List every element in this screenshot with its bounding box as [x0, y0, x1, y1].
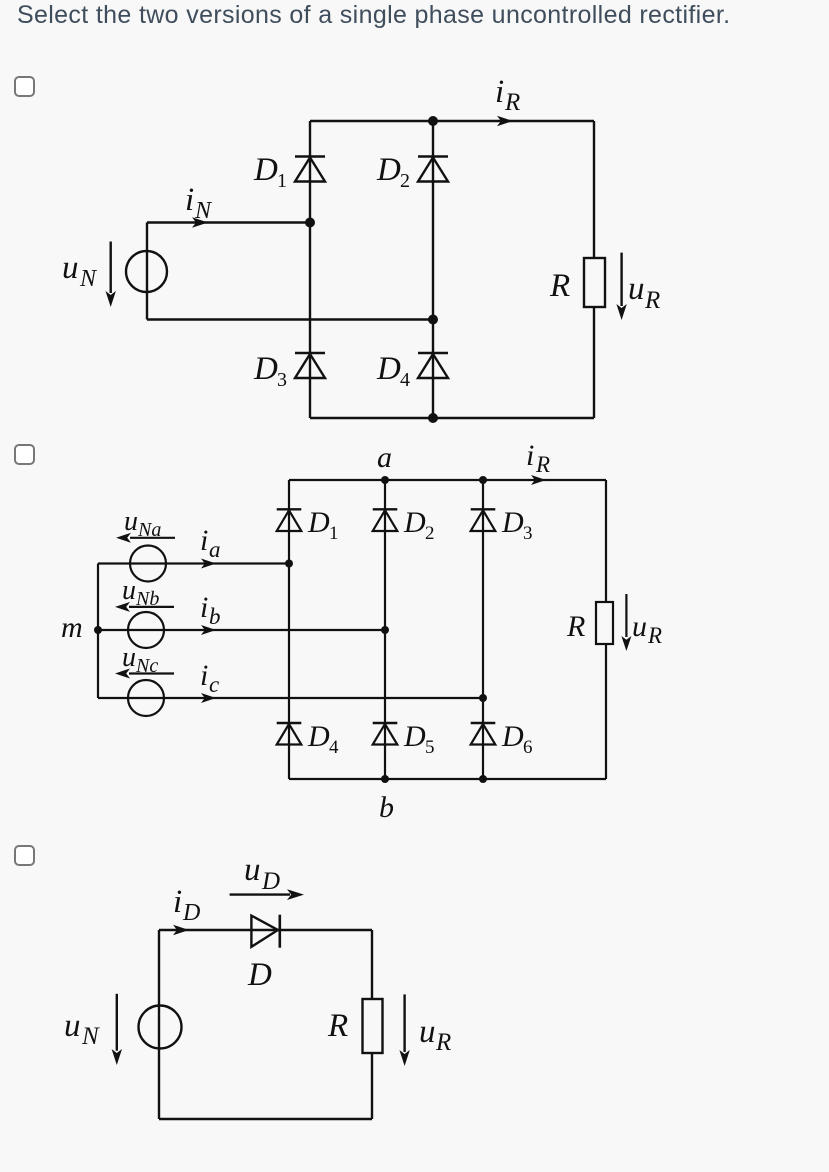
svg-text:D: D — [376, 152, 401, 188]
node phase c / D3 — [479, 694, 487, 702]
svg-text:D: D — [501, 720, 524, 753]
label uN — [62, 250, 98, 292]
svg-text:R: R — [647, 623, 662, 648]
svg-text:4: 4 — [400, 369, 410, 391]
wire phase b — [98, 629, 385, 631]
checkbox option 1 — [14, 76, 35, 97]
svg-text:D: D — [253, 351, 278, 387]
node phase b / D2 — [381, 626, 389, 634]
svg-text:Nb: Nb — [135, 588, 159, 610]
label D3 — [253, 351, 287, 391]
svg-text:N: N — [79, 266, 98, 292]
label D1 — [253, 152, 287, 192]
label uD — [244, 852, 280, 895]
svg-text:6: 6 — [523, 737, 533, 758]
label iR — [526, 439, 550, 477]
svg-text:i: i — [200, 659, 208, 692]
svg-text:D: D — [403, 506, 426, 539]
current arrow iN — [192, 217, 208, 227]
svg-text:u: u — [64, 1008, 81, 1044]
label uNa — [124, 506, 161, 541]
svg-text:Na: Na — [137, 519, 161, 541]
wire source left — [146, 223, 148, 320]
voltage arrow uNa — [116, 533, 175, 543]
label iD — [173, 884, 200, 926]
svg-text:a: a — [209, 537, 221, 562]
label uR — [419, 1014, 451, 1056]
label uR — [628, 271, 660, 314]
svg-text:N: N — [194, 198, 213, 224]
current arrow ic — [201, 693, 216, 703]
label D5 — [403, 720, 435, 758]
label D6 — [501, 720, 533, 758]
label R — [327, 1008, 348, 1044]
wire right — [605, 480, 607, 779]
diode D5 — [373, 630, 398, 779]
label iR — [495, 74, 520, 116]
label D4 — [376, 351, 410, 391]
svg-text:R: R — [535, 452, 550, 477]
node AC right — [428, 315, 438, 325]
node bottom D6 — [479, 775, 487, 783]
svg-text:u: u — [62, 250, 79, 286]
wire source bottom — [147, 318, 433, 320]
label D4 — [307, 720, 339, 758]
svg-text:u: u — [628, 271, 645, 307]
wire bottom rail — [289, 778, 606, 780]
svg-text:R: R — [435, 1029, 451, 1056]
svg-text:u: u — [632, 610, 647, 643]
svg-text:i: i — [200, 591, 208, 624]
label uN — [64, 1008, 100, 1050]
wire phase c — [98, 697, 483, 699]
svg-text:a: a — [377, 441, 392, 474]
AC source uNb — [128, 612, 164, 648]
resistor R — [584, 258, 605, 307]
label a — [377, 441, 392, 474]
svg-text:D: D — [247, 957, 272, 993]
svg-text:R: R — [644, 287, 660, 314]
diode D2 — [373, 480, 398, 630]
wire neutral bus — [97, 564, 99, 699]
svg-text:i: i — [185, 182, 194, 218]
node top rail — [428, 116, 438, 126]
svg-text:1: 1 — [277, 170, 287, 192]
voltage arrow uNb — [115, 602, 174, 612]
label iN — [185, 182, 213, 224]
svg-text:D: D — [307, 720, 330, 753]
node top D3 — [479, 476, 487, 484]
voltage arrow uR — [399, 994, 409, 1066]
node a — [381, 476, 389, 484]
voltage arrow uR — [616, 253, 626, 320]
svg-text:Nc: Nc — [135, 655, 158, 677]
wire top — [159, 929, 372, 931]
diode D6 — [471, 698, 496, 779]
AC source uN — [126, 251, 167, 292]
current arrow iR — [531, 475, 546, 485]
wire bottom — [159, 1118, 372, 1120]
AC source uN — [139, 1006, 182, 1049]
diode D1 — [277, 480, 302, 564]
svg-text:D: D — [182, 900, 200, 926]
svg-text:1: 1 — [329, 523, 339, 544]
node bottom rail — [428, 413, 438, 423]
label m — [61, 611, 83, 644]
node m — [94, 626, 102, 634]
svg-text:b: b — [379, 791, 394, 824]
svg-text:R: R — [504, 89, 520, 116]
diode D3 — [295, 223, 325, 419]
wire left — [158, 930, 160, 1119]
label D1 — [307, 506, 339, 544]
current arrow ia — [201, 559, 216, 569]
svg-text:u: u — [419, 1014, 436, 1050]
label ia — [200, 524, 221, 562]
label uNb — [122, 575, 159, 610]
svg-text:u: u — [244, 852, 261, 888]
node phase a / D1 — [285, 560, 293, 568]
svg-text:D: D — [261, 868, 280, 895]
AC source uNa — [130, 546, 166, 582]
svg-text:2: 2 — [400, 170, 410, 192]
current arrow iD — [173, 925, 189, 935]
current arrow iR — [497, 116, 513, 126]
svg-text:4: 4 — [329, 737, 339, 758]
svg-text:i: i — [200, 524, 208, 557]
svg-text:m: m — [61, 611, 83, 644]
svg-text:N: N — [81, 1023, 100, 1050]
label uNc — [122, 642, 158, 677]
svg-text:3: 3 — [523, 523, 533, 544]
svg-text:i: i — [173, 884, 182, 920]
svg-text:D: D — [253, 152, 278, 188]
voltage arrow uD — [230, 889, 304, 900]
svg-text:u: u — [122, 575, 136, 606]
svg-text:3: 3 — [277, 369, 287, 391]
svg-text:R: R — [566, 610, 585, 643]
label D2 — [376, 152, 410, 192]
svg-text:u: u — [122, 642, 136, 673]
label R — [566, 610, 585, 643]
voltage arrow uN — [112, 994, 122, 1065]
svg-text:i: i — [526, 439, 534, 472]
resistor R — [596, 602, 613, 644]
diode D4 — [418, 320, 448, 419]
current arrow ib — [201, 625, 216, 635]
resistor R — [363, 999, 383, 1053]
label ic — [200, 659, 219, 697]
label D3 — [501, 506, 533, 544]
node b — [381, 775, 389, 783]
label ib — [200, 591, 221, 629]
diode D4 — [277, 564, 302, 780]
wire phase a — [98, 562, 289, 564]
svg-text:5: 5 — [425, 737, 435, 758]
node AC left — [305, 218, 315, 228]
svg-text:D: D — [376, 351, 401, 387]
svg-text:b: b — [209, 604, 221, 629]
wire bottom — [310, 417, 594, 419]
wire source top — [147, 221, 310, 223]
checkbox option 2 — [14, 444, 35, 465]
svg-text:D: D — [307, 506, 330, 539]
svg-text:u: u — [124, 506, 138, 537]
wire right — [371, 930, 373, 1119]
svg-text:c: c — [209, 672, 219, 697]
label R — [549, 268, 570, 304]
voltage arrow uNc — [115, 669, 174, 679]
svg-text:D: D — [501, 506, 524, 539]
diode D3 — [471, 480, 496, 698]
svg-text:R: R — [549, 268, 570, 304]
checkbox option 3 — [14, 845, 35, 866]
label b — [379, 791, 394, 824]
voltage arrow uN — [106, 242, 116, 308]
diode D — [251, 915, 279, 948]
voltage arrow uR — [621, 594, 631, 651]
label D2 — [403, 506, 435, 544]
label uR — [632, 610, 662, 648]
wire top (bridge output top rail) — [310, 120, 594, 122]
label D — [247, 957, 272, 993]
svg-text:R: R — [327, 1008, 348, 1044]
svg-text:2: 2 — [425, 523, 435, 544]
wire right — [593, 121, 595, 418]
svg-text:i: i — [495, 74, 504, 110]
diode D1 — [295, 121, 325, 223]
diode D2 — [418, 121, 448, 320]
svg-text:D: D — [403, 720, 426, 753]
AC source uNc — [128, 680, 164, 716]
wire top rail — [289, 479, 606, 481]
